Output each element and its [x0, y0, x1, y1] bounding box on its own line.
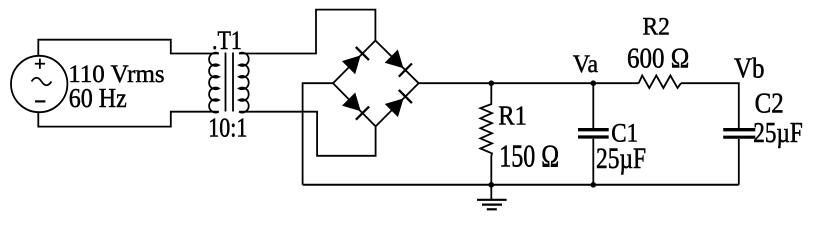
svg-text:150 Ω: 150 Ω — [499, 139, 559, 174]
svg-text:.T1: .T1 — [212, 26, 242, 55]
svg-text:R2: R2 — [643, 12, 670, 40]
bridge diamond edge left-bottom — [333, 83, 376, 126]
svg-text:60 Hz: 60 Hz — [69, 83, 127, 114]
junction dot: R1 bottom — [489, 182, 495, 188]
bridge diamond edge top-right — [375, 41, 418, 84]
diode D4 (bottom to right) — [387, 90, 412, 116]
diode D1 (left to top) — [344, 47, 369, 73]
junction dot: node Va — [591, 80, 597, 86]
diode D2 (top to right) — [386, 51, 412, 76]
svg-text:Va: Va — [573, 51, 598, 79]
resistor R1 — [480, 83, 492, 185]
diode D3 (left to bottom) — [344, 94, 369, 120]
wire: source top to transformer primary top — [38, 40, 219, 57]
VS minus sign — [35, 100, 45, 102]
svg-text:25µF: 25µF — [753, 117, 802, 149]
transformer T1 core lines — [225, 53, 227, 112]
capacitor C2 — [723, 130, 755, 185]
capacitor C1 — [578, 83, 609, 185]
svg-text:25µF: 25µF — [596, 141, 646, 174]
svg-text:10:1: 10:1 — [208, 114, 247, 144]
VS plus sign — [35, 59, 45, 69]
transformer T1 primary winding — [209, 53, 219, 113]
bridge diamond edge left-top — [333, 41, 375, 84]
junction dot: C1 bottom — [591, 182, 597, 188]
wire: bridge left vertex to bottom rail — [303, 83, 333, 185]
svg-text:600 Ω: 600 Ω — [627, 42, 689, 74]
wire: bottom rail (ground net) — [303, 184, 739, 186]
bridge diamond edge bottom-right — [376, 83, 419, 126]
wire: main top rail from bridge + output to R2 — [419, 82, 639, 84]
svg-text:Vb: Vb — [734, 52, 765, 84]
resistor R2 — [639, 76, 681, 89]
wire: R2 right lead to Vb corner, down to C2 — [681, 83, 739, 128]
svg-text:C2: C2 — [755, 87, 784, 119]
svg-text:R1: R1 — [498, 100, 527, 130]
ground symbol — [477, 185, 507, 210]
VS sine wave — [32, 78, 52, 86]
wire: secondary bottom to bridge bottom vertex — [239, 112, 376, 156]
wire: source bottom to transformer primary bottom — [38, 112, 219, 127]
AC source VS circle — [11, 56, 67, 112]
wire: secondary top to bridge top vertex — [239, 10, 375, 54]
transformer T1 secondary winding — [239, 53, 249, 113]
junction dot: R1 top — [489, 80, 495, 86]
